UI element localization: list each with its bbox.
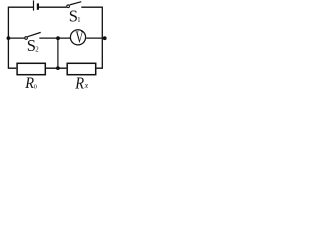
svg-text:x: x <box>84 81 89 90</box>
svg-text:R: R <box>74 75 84 92</box>
svg-text:2: 2 <box>35 46 39 54</box>
svg-text:1: 1 <box>77 16 81 24</box>
svg-text:0: 0 <box>34 84 37 91</box>
svg-text:V: V <box>75 29 84 48</box>
